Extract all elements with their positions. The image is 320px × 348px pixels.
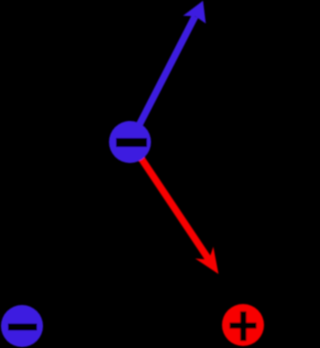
red force vector arrow [131, 143, 219, 274]
bottom-left negative charge [1, 305, 43, 347]
central electron (blue negative charge) [109, 121, 151, 163]
bottom-right positive charge [222, 304, 264, 346]
blue velocity vector arrow [131, 1, 206, 141]
